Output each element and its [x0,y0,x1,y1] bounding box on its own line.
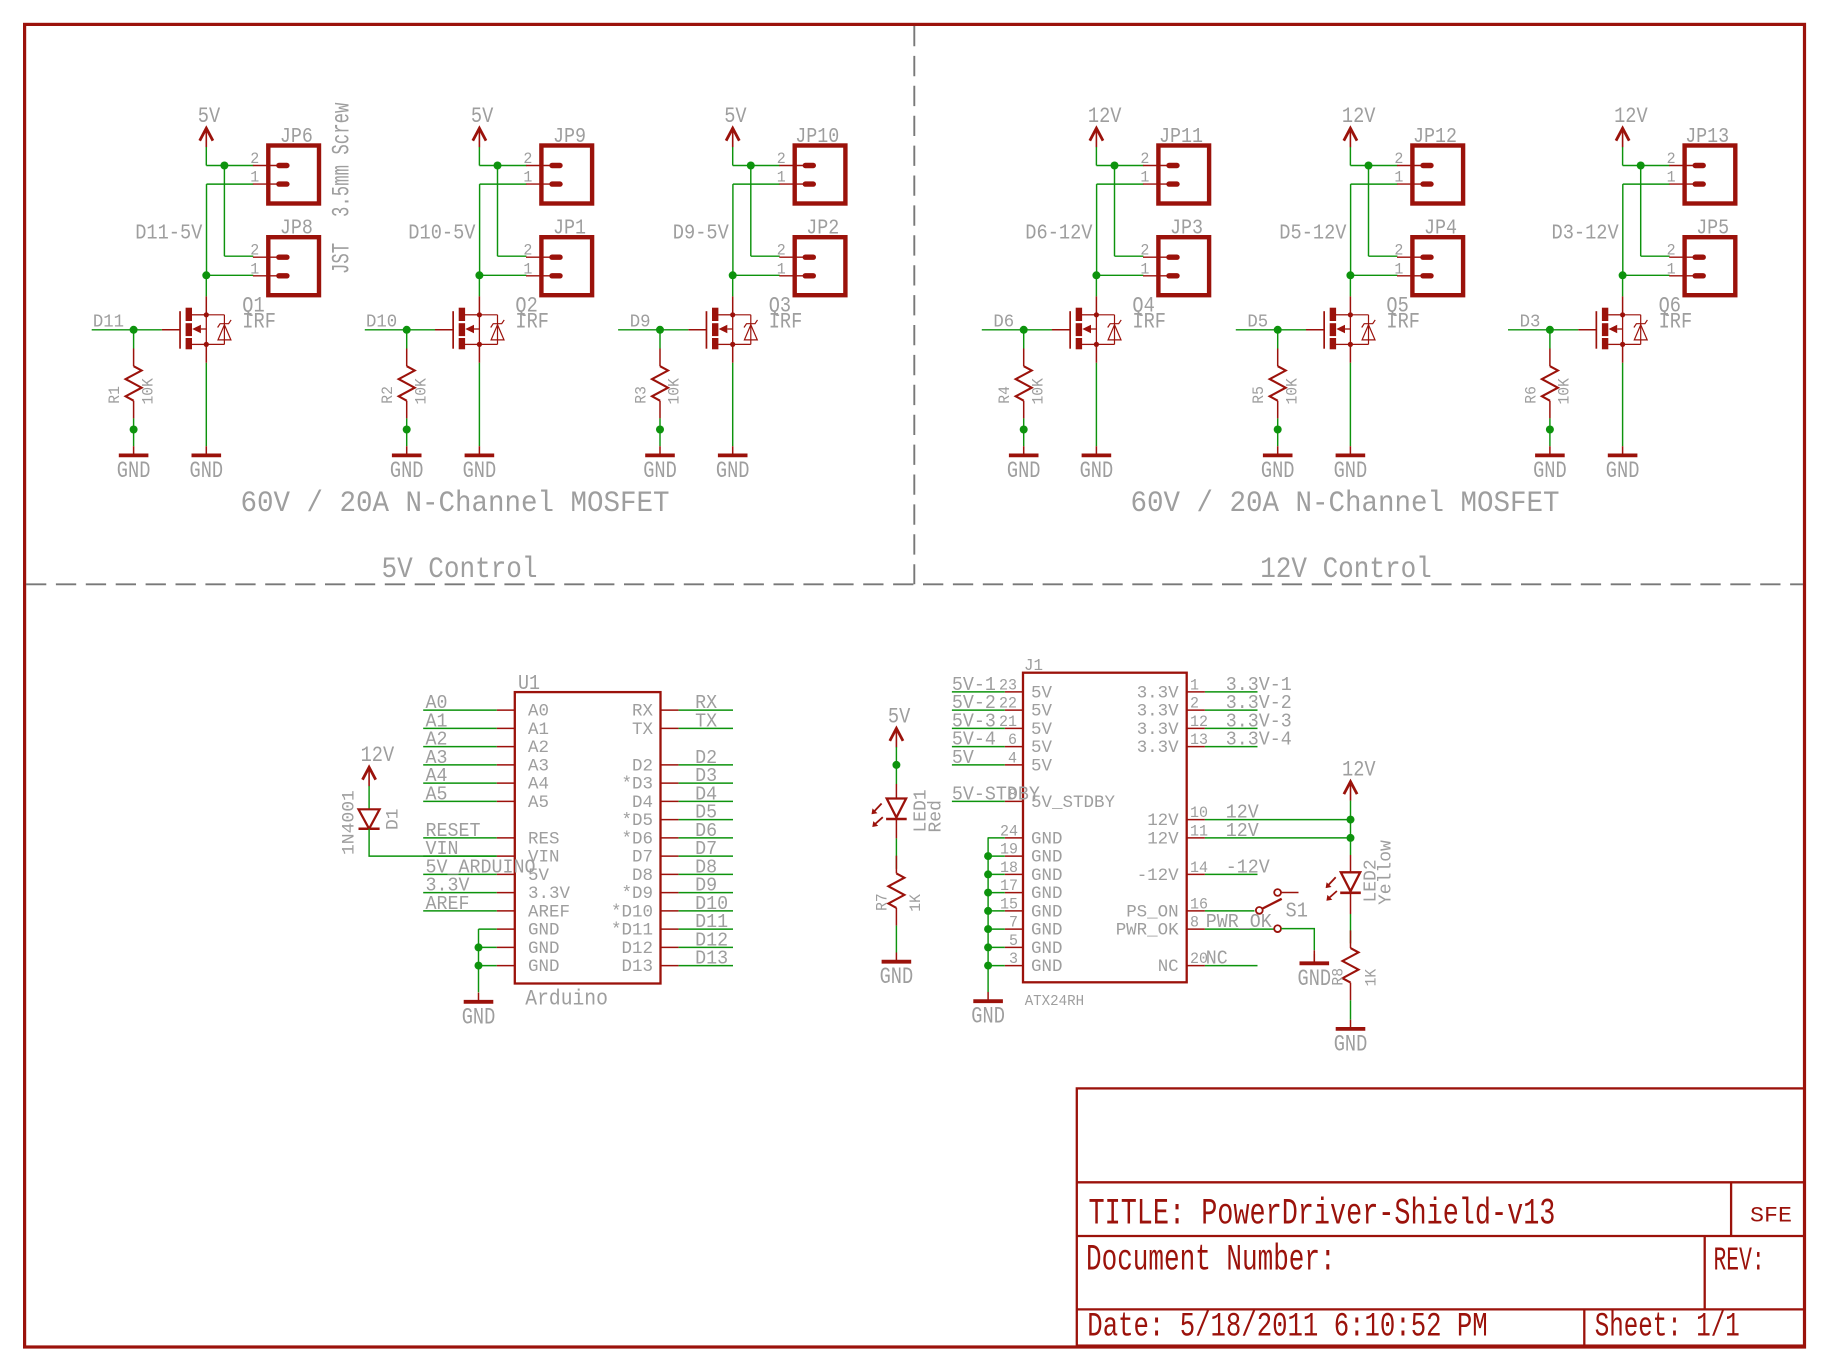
wire net 5V-1 [952,691,1005,693]
U1 pin D2 [632,756,679,776]
svg-text:A5: A5 [528,793,549,813]
svg-text:Yellow: Yellow [1377,840,1397,905]
svg-text:1: 1 [523,260,532,278]
J1 pin GND #19 [1000,841,1063,868]
svg-text:GND: GND [1031,921,1063,941]
wire D1 to VIN [369,829,497,856]
junction [1637,162,1645,170]
U1 pin *D6 [622,829,679,849]
svg-text:GND: GND [528,921,560,941]
svg-text:5V-STDBY: 5V-STDBY [952,783,1041,805]
junction [984,925,992,933]
connector JP6 [253,126,319,204]
svg-text:NC: NC [1206,948,1228,970]
svg-text:AREF: AREF [528,902,570,922]
J1 pin NC #20 [1158,950,1208,977]
ground [1533,446,1567,484]
label Q1 IRF [242,293,276,335]
connector JP12 [1397,126,1463,204]
wire net VIN [423,855,497,857]
svg-text:10K: 10K [1556,377,1574,404]
svg-text:*D6: *D6 [622,829,654,849]
ground [1080,446,1114,484]
wire drain node down [478,275,480,296]
svg-text:1N4001: 1N4001 [340,790,360,855]
wire end dot [656,426,664,434]
junction gate node [1274,326,1282,334]
connector JP5 [1669,218,1735,296]
wire gate node down to resistor [406,330,408,349]
svg-text:GND: GND [528,957,560,977]
svg-text:IRF: IRF [1659,309,1693,335]
junction [1365,162,1373,170]
svg-text:2: 2 [1140,242,1149,260]
svg-text:Arduino: Arduino [525,987,608,1012]
svg-text:IRF: IRF [242,309,276,335]
wire net D9 [679,892,733,894]
svg-text:3.3V: 3.3V [528,884,570,904]
svg-text:GND: GND [1334,1031,1368,1057]
svg-text:JP3: JP3 [1170,218,1203,241]
wire supply to junction [1622,147,1624,166]
transistor Q5 (N-MOSFET) [1306,296,1375,362]
transistor Q6 (N-MOSFET) [1578,296,1647,362]
svg-text:A0: A0 [528,702,549,722]
wire end dot [1274,426,1282,434]
U1 pin D4 [632,793,679,813]
svg-text:A5: A5 [426,783,448,805]
svg-text:D3-12V: D3-12V [1552,222,1620,245]
U1 pin *D10 [611,902,679,922]
svg-text:3.3V: 3.3V [1137,683,1179,703]
transistor Q4 (N-MOSFET) [1052,296,1121,362]
wire net row 2 [1205,709,1258,711]
wire net D11 stub [92,329,134,331]
svg-text:5V: 5V [888,704,911,729]
wire net A5 [423,800,497,802]
junction drain node [729,271,737,279]
wire gnd row [988,946,1005,948]
svg-text:12V Control: 12V Control [1260,553,1432,587]
junction [984,943,992,951]
ground [1261,446,1295,484]
wire to JP3 pin 2 [1115,255,1144,257]
wire junction down [750,166,752,257]
connector JP8 [253,218,319,296]
wire junction row to JP pin 2 [1623,165,1670,167]
supply 5V [888,704,911,747]
ground [1007,446,1041,484]
U1 pin A1 [497,720,549,740]
wire R8 to ground [1350,1000,1352,1019]
wire gate node to gate [1550,329,1578,331]
wire net row 10 [1205,819,1351,821]
section divider dashed horizontal [26,583,1803,585]
wire gate node down to resistor [133,330,135,349]
svg-text:GND: GND [1031,848,1063,868]
wire end dot [1020,426,1028,434]
wire drain node to JP2 pin 1 [733,274,780,276]
label Q5 IRF [1386,293,1420,335]
wire JP12 pin 1 to drain node [1351,183,1398,185]
wire 5V to junction [895,747,897,784]
wire supply to junction [732,147,734,166]
wire to JP1 pin 2 [498,255,527,257]
junction 12V row 10 [1347,816,1355,824]
J1 pin 3.3V #12 [1137,713,1208,740]
svg-text:RES: RES [528,829,560,849]
svg-text:GND: GND [1031,829,1063,849]
J1 pin 5V #23 [999,676,1052,703]
svg-text:PS_ON: PS_ON [1126,902,1179,922]
J1 pin GND #24 [1000,822,1063,849]
svg-text:2: 2 [523,242,532,260]
svg-text:2: 2 [250,150,259,168]
wire net D12 [679,946,733,948]
svg-text:JP5: JP5 [1696,218,1729,241]
J1 pin 5V #21 [999,713,1052,740]
svg-text:JP6: JP6 [280,126,313,149]
junction [984,907,992,915]
wire net D10 [679,910,733,912]
svg-text:2: 2 [523,150,532,168]
ground [462,993,496,1031]
connector JP1 [526,218,592,296]
wire drain node to JP8 pin 1 [206,274,253,276]
transistor Q1 (N-MOSFET) [162,296,231,362]
junction [984,852,992,860]
wire net RESET [423,837,497,839]
junction [984,889,992,897]
connector JP13 [1669,126,1735,204]
junction drain node [202,271,210,279]
J1 pin GND #5 [1005,932,1063,959]
transistor Q3 (N-MOSFET) [688,296,757,362]
ground [1606,446,1640,484]
U1 pin *D11 [611,921,679,941]
svg-text:60V / 20A N-Channel MOSFET: 60V / 20A N-Channel MOSFET [241,487,670,521]
svg-text:IRF: IRF [1386,309,1420,335]
svg-text:5V: 5V [1031,683,1052,703]
U1 pin D7 [632,848,679,868]
svg-text:5V: 5V [1031,702,1052,722]
svg-text:12V: 12V [1342,758,1376,783]
svg-text:*D3: *D3 [622,775,654,795]
junction [475,962,483,970]
label Q4 IRF [1132,293,1166,335]
svg-text:60V / 20A N-Channel MOSFET: 60V / 20A N-Channel MOSFET [1131,487,1560,521]
svg-text:2: 2 [1190,695,1199,713]
J1 pin 3.3V #1 [1137,676,1205,703]
wire drain node down [1095,275,1097,296]
J1 pin GND #17 [1000,877,1063,904]
svg-text:5V: 5V [724,104,747,129]
wire net D6 [679,837,733,839]
svg-text:D12: D12 [622,939,654,959]
svg-text:REV:: REV: [1714,1243,1765,1281]
wire drain node to JP3 pin 1 [1096,274,1143,276]
svg-text:5V: 5V [1031,720,1052,740]
wire gate node to gate [660,329,688,331]
wire resistor to ground [406,418,408,446]
svg-text:1: 1 [1140,169,1149,187]
svg-text:GND: GND [1031,957,1063,977]
connector JP2 [779,218,845,296]
label Q2 IRF [515,293,549,335]
svg-text:GND: GND [463,458,497,484]
svg-text:IRF: IRF [769,309,803,335]
J1 pin GND #3 [1005,950,1063,977]
U1 pin GND [497,939,560,959]
wire S1 to ground [1281,929,1314,951]
svg-text:6: 6 [1008,731,1017,749]
svg-text:A1: A1 [528,720,549,740]
wire drain node to JP4 pin 1 [1350,274,1397,276]
U1 pin *D5 [622,811,679,831]
wire drain node down [732,275,734,296]
svg-text:A3: A3 [528,756,549,776]
wire supply to junction [205,147,207,166]
svg-text:IRF: IRF [1132,309,1166,335]
wire junction row to JP pin 2 [733,165,780,167]
svg-text:A2: A2 [528,738,549,758]
svg-text:GND: GND [390,458,424,484]
wire gnd row [988,965,1005,967]
junction drain node [1346,271,1354,279]
svg-text:Red: Red [927,800,947,832]
svg-text:1: 1 [1140,260,1149,278]
label Q3 IRF [769,293,803,335]
wire gnd row [988,837,1005,839]
junction [475,943,483,951]
svg-text:GND: GND [880,964,914,990]
junction [494,162,502,170]
svg-text:3.3V: 3.3V [1137,720,1179,740]
svg-text:J1: J1 [1024,657,1043,676]
section divider dashed vertical [913,26,915,584]
svg-text:JP12: JP12 [1413,126,1457,149]
svg-text:U1: U1 [518,673,540,696]
U1 pin *D9 [622,884,679,904]
U1 pin A4 [497,775,549,795]
svg-text:D4: D4 [632,793,653,813]
svg-text:7: 7 [1009,914,1018,932]
wire source to ground [478,363,480,446]
wire source to ground [205,363,207,446]
svg-text:5V: 5V [1031,756,1052,776]
resistor R7 1K [873,856,925,926]
svg-text:D2: D2 [632,756,653,776]
svg-text:R8: R8 [1330,968,1348,986]
svg-text:NC: NC [1158,957,1179,977]
svg-text:12V: 12V [1342,104,1376,129]
wire junction down [497,166,499,257]
junction [984,962,992,970]
svg-text:1: 1 [1190,676,1199,694]
wire net D7 [679,855,733,857]
svg-text:GND: GND [1533,458,1567,484]
U1 pin A2 [497,738,549,758]
wire net 5V-2 [952,709,1005,711]
svg-text:GND: GND [1031,902,1063,922]
wire to JP4 pin 2 [1369,255,1398,257]
wire resistor to ground [133,418,135,446]
ground [390,446,424,484]
svg-text:R2: R2 [379,386,397,404]
ground [190,446,224,484]
resistor R3 10K [632,349,683,419]
svg-text:1: 1 [1667,260,1676,278]
svg-text:5V: 5V [952,747,975,769]
svg-text:5V Control: 5V Control [382,553,538,587]
J1 pin PWR_OK #8 [1116,914,1205,941]
svg-text:D1: D1 [384,808,404,830]
U1 pin AREF [497,902,570,922]
svg-text:PWR_OK: PWR_OK [1116,921,1179,941]
U1 pin GND [497,957,560,977]
U1 pin 5V [497,866,550,886]
wire source to ground [1095,363,1097,446]
wire net row 8 [1205,928,1275,930]
svg-text:GND: GND [1007,458,1041,484]
wire J1 ground bus [987,837,989,992]
svg-text:GND: GND [1031,884,1063,904]
wire to JP5 pin 2 [1641,255,1670,257]
wire net 5V [952,764,1005,766]
svg-text:GND: GND [1261,458,1295,484]
wire JP11 pin 1 to drain node [1097,183,1144,185]
supply 5V [198,104,221,147]
svg-text:GND: GND [643,458,677,484]
svg-text:A4: A4 [528,775,549,795]
junction gate node [656,326,664,334]
svg-text:GND: GND [1080,458,1114,484]
supply 12V [361,743,395,786]
junction [984,870,992,878]
J1 pin GND #7 [1005,914,1063,941]
U1 pin A3 [497,756,549,776]
resistor R6 10K [1522,349,1573,419]
svg-text:12V: 12V [1614,104,1648,129]
junction 12V row 11 [1347,834,1355,842]
svg-text:D11-5V: D11-5V [135,222,203,245]
wire net AREF [423,910,497,912]
svg-text:5V: 5V [1031,738,1052,758]
wire drain node down [1622,275,1624,296]
svg-text:5V: 5V [471,104,494,129]
wire net TX [679,727,733,729]
wire net D10 stub [365,329,407,331]
svg-text:Document Number:: Document Number: [1086,1240,1336,1282]
wire junction down [1640,166,1642,257]
svg-text:1: 1 [250,169,259,187]
svg-text:5V: 5V [198,104,221,129]
switch S1 [1256,889,1308,932]
wire net row 11 [1205,837,1351,839]
wire net 5V-STDBY [952,800,1005,802]
wire LED1 to R7 [895,819,897,838]
label Q6 IRF [1659,293,1693,335]
svg-text:R3: R3 [632,386,650,404]
svg-text:GND: GND [716,458,750,484]
wire net 3.3V [423,892,497,894]
svg-text:4: 4 [1008,749,1017,767]
U1 pin 3.3V [497,884,571,904]
svg-text:GND: GND [528,939,560,959]
svg-text:SFE: SFE [1750,1203,1792,1228]
wire net A1 [423,727,497,729]
wire gate node to gate [1024,329,1052,331]
wire end dot [130,426,138,434]
svg-text:2: 2 [1140,150,1149,168]
svg-text:JST: JST [328,243,357,274]
J1 pin 5V_STDBY #8 [1005,786,1116,813]
wire U1 ground bus [478,929,480,992]
wire supply to junction [1349,147,1351,166]
IC U1 Arduino box [515,673,661,1012]
svg-text:JP8: JP8 [280,218,313,241]
wire net 5V-3 [952,727,1005,729]
wire gnd row [988,855,1005,857]
ground [643,446,677,484]
wire net RX [679,709,733,711]
svg-text:GND: GND [971,1004,1005,1030]
connector JP11 [1143,126,1209,204]
svg-text:12V: 12V [361,743,395,768]
junction gate node [1020,326,1028,334]
junction [1111,162,1119,170]
svg-text:2: 2 [777,242,786,260]
wire to JP2 pin 2 [751,255,780,257]
wire R7 to ground [895,926,897,953]
svg-text:TX: TX [695,710,718,732]
svg-text:12V: 12V [1147,811,1179,831]
wire supply to junction [1095,147,1097,166]
wire gnd [479,965,497,967]
svg-text:AREF: AREF [426,893,470,915]
junction drain node [1619,271,1627,279]
U1 pin RX [632,702,679,722]
svg-text:2: 2 [250,242,259,260]
transistor Q2 (N-MOSFET) [435,296,504,362]
svg-text:GND: GND [117,458,151,484]
svg-text:*D10: *D10 [611,902,653,922]
svg-text:PWR_OK: PWR_OK [1206,911,1273,933]
resistor R1 10K [106,349,157,419]
connector J1 ATX24RH box [1023,657,1187,1010]
wire net row 20 [1205,965,1258,967]
wire junction row to JP pin 2 [206,165,253,167]
svg-text:JP11: JP11 [1159,126,1203,149]
ground [117,446,151,484]
wire gnd row [988,910,1005,912]
svg-text:R4: R4 [996,386,1014,404]
resistor R2 10K [379,349,430,419]
svg-text:3.3V-4: 3.3V-4 [1226,729,1292,751]
svg-text:10K: 10K [666,377,684,404]
svg-text:*D11: *D11 [611,921,653,941]
svg-text:1: 1 [523,169,532,187]
wire junction row to JP pin 2 [479,165,526,167]
J1 pin 12V #10 [1147,804,1208,831]
U1 pin D13 [622,957,679,977]
svg-text:D7: D7 [632,848,653,868]
wire junction to LED1 [895,784,897,799]
svg-text:1K: 1K [907,893,925,911]
junction [747,162,755,170]
J1 pin PS_ON #16 [1126,895,1208,922]
svg-text:5: 5 [1009,932,1018,950]
